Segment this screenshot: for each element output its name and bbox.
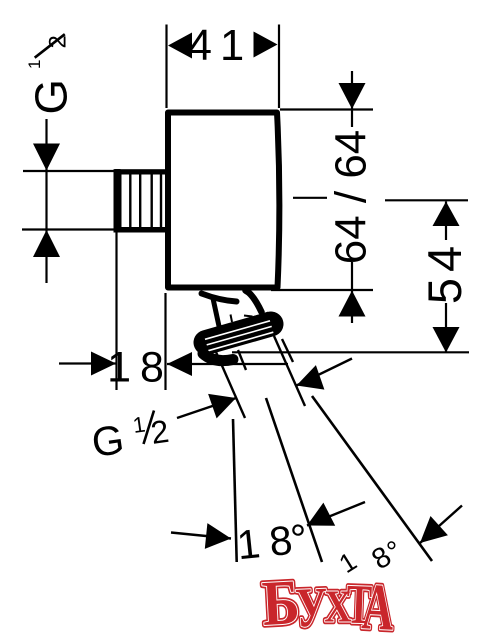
svg-text:18°: 18° — [235, 515, 310, 568]
svg-text:1: 1 — [25, 60, 44, 69]
arrow 18 right (left-pointing) — [167, 352, 192, 376]
arrow angle1 right (left-pointing) — [307, 503, 335, 526]
stub hatch line 3 — [150, 173, 152, 228]
body rounded rectangle — [168, 113, 279, 288]
outlet inner edge stub L2 — [238, 350, 246, 370]
arrow G1/2 upper (down) — [33, 144, 60, 171]
extension line 64/64 bottom — [271, 289, 373, 291]
dimension line G1/2 vertical — [45, 119, 47, 230]
label G1/2 bottom — [89, 411, 171, 466]
outlet cup tick 2 — [244, 316, 253, 317]
white inline layer — [260, 567, 396, 640]
extension line 41 left — [165, 25, 167, 109]
arrow angle1 left (right-pointing) — [205, 523, 231, 549]
dimension line 54 lower segment — [445, 303, 447, 353]
outlet bottom rim — [203, 354, 233, 361]
arrow angle2 right — [420, 516, 448, 543]
fan line 2 — [266, 398, 322, 562]
svg-text:54: 54 — [418, 240, 471, 304]
threaded stub top edge — [114, 169, 167, 174]
dimension line 64/64 upper segment — [351, 71, 353, 127]
outlet cup rim arc — [202, 294, 237, 302]
extension line 41 right — [278, 25, 280, 109]
outlet nut top edge — [219, 313, 269, 329]
svg-text:G: G — [26, 79, 77, 114]
dimension line 18 right tail — [167, 363, 288, 365]
nut knurl stripe 1 — [205, 321, 270, 340]
outlet edge extension line A — [216, 352, 245, 418]
threaded stub left cap — [114, 169, 122, 232]
arrow 64/64 bottom (up) — [339, 291, 366, 317]
fan line 1 vertical — [233, 419, 237, 562]
outlet nut band — [206, 324, 271, 343]
threaded stub bottom edge — [114, 227, 167, 233]
svg-text:2: 2 — [45, 35, 72, 48]
stub hatch line 1 — [129, 173, 131, 228]
arrow 41 right — [254, 32, 278, 58]
label G1/2 top-left — [25, 34, 77, 114]
extension line 18 left — [115, 231, 117, 390]
arrow 64/64 top (down) — [339, 83, 366, 109]
outer red layer — [260, 567, 396, 640]
angle dim 1 tail left — [171, 533, 231, 539]
stub hatch line 4 — [160, 173, 162, 228]
arrow 54 bottom (down) — [433, 327, 460, 353]
extension line 54 bottom — [232, 351, 469, 353]
watermark BUHTA — [260, 567, 396, 640]
fan line 3 — [312, 396, 432, 561]
svg-text:64 / 64: 64 / 64 — [327, 130, 376, 265]
nut knurl stripe 3 — [208, 332, 273, 351]
dimension line 64/64 lower segment — [351, 262, 353, 323]
outlet edge extension line B — [274, 336, 305, 406]
outlet inner edge stub B2 — [282, 339, 293, 362]
solid red core layer — [260, 567, 396, 640]
svg-text:18: 18 — [107, 344, 173, 392]
extension line 64/64 top — [280, 108, 373, 110]
outlet cup tick 1 — [231, 315, 233, 323]
svg-text:У: У — [294, 575, 328, 639]
label 18deg rotated — [334, 535, 409, 579]
outlet cup left wall — [213, 299, 220, 329]
stub hatch line 2 — [139, 173, 141, 228]
svg-text:G: G — [89, 416, 127, 466]
outlet cup right wall — [246, 291, 262, 313]
svg-text:А: А — [360, 571, 396, 640]
midline dash right — [385, 199, 468, 201]
G1/2 outlet dim tail right — [297, 359, 353, 386]
arrow 54 top (up) — [433, 202, 460, 227]
dimension line 18 left tail — [59, 362, 116, 364]
arrow 41 left — [168, 33, 192, 59]
dimension line 54 upper segment — [445, 202, 447, 241]
arrow outlet G1/2 left — [208, 394, 236, 419]
angle dim 2 tail right — [420, 506, 462, 544]
arrow 18 left (right-pointing) — [91, 352, 116, 376]
angle dim 1 tail right — [307, 502, 365, 526]
midline dash left — [293, 197, 327, 199]
arrow G1/2 lower (up) — [33, 230, 60, 257]
svg-text:41: 41 — [188, 22, 252, 70]
extension line stub top (G1/2 upper) — [23, 170, 114, 172]
arrow outlet G1/2 right — [297, 365, 325, 390]
extension line stub bottom (G1/2 lower) — [22, 228, 114, 230]
extension line 18 right — [164, 293, 166, 390]
nut knurl stripe 2 — [207, 326, 272, 345]
G1/2 outlet dim tail left — [177, 398, 236, 418]
